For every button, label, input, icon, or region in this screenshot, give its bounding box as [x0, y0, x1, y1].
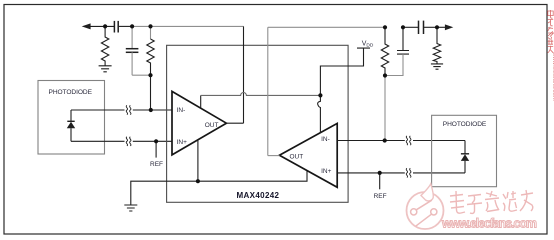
resistor R4 feedback right	[381, 27, 388, 75]
photodiode box right	[432, 115, 497, 186]
break symbol right IN-	[406, 136, 411, 145]
wire: C4 to R3 node	[424, 26, 437, 28]
watermark logo bottom right	[407, 184, 538, 231]
svg-text:PHOTODIODE: PHOTODIODE	[49, 89, 93, 96]
MAX40242 box	[167, 45, 349, 202]
wire: IN+ B out to REF node	[337, 172, 405, 174]
wire: C1 to node A	[119, 25, 132, 27]
wire: IN- B out to node (y=140.5)	[337, 140, 405, 142]
wire: riser OUT A up to top line	[243, 26, 245, 123]
wire: D1 bottom to break	[71, 140, 125, 142]
wire: OUT A to riser	[226, 122, 243, 124]
wire: C2 bottom to node C	[132, 74, 150, 76]
logo circle	[407, 192, 444, 229]
break symbol left IN-	[126, 105, 131, 114]
resistor R1 to ground	[101, 26, 108, 65]
svg-text:MAX40242: MAX40242	[237, 191, 280, 200]
op-amp U1A	[172, 91, 226, 154]
VDD symbol	[320, 48, 370, 95]
wire: node B to corner, feedback top line (gray)	[151, 25, 244, 27]
arrow right output	[445, 24, 453, 30]
photodiode D2	[461, 153, 469, 155]
wire: break to photodiode right top	[413, 140, 465, 142]
capacitor C4 series right	[418, 21, 420, 34]
svg-text:REF: REF	[150, 161, 163, 168]
svg-text:DD: DD	[366, 42, 373, 48]
watermark chinese characters	[450, 190, 533, 213]
svg-text:PHOTODIODE: PHOTODIODE	[443, 121, 487, 128]
wire: D1 top to break	[71, 109, 125, 111]
svg-text:IN+: IN+	[177, 139, 188, 146]
op-amp U1B	[279, 123, 337, 187]
svg-text:IN+: IN+	[321, 168, 332, 175]
capacitor C1 series output	[113, 21, 115, 33]
svg-text:IN-: IN-	[321, 136, 330, 143]
VDD pin drop U1A	[200, 95, 202, 108]
logo arm lines	[416, 200, 432, 226]
resistor R3 to ground right	[433, 27, 440, 63]
wire: break to amp IN+	[133, 140, 172, 142]
arrow left output	[82, 23, 91, 29]
svg-text:OUT: OUT	[205, 122, 219, 129]
logo ring 1	[411, 209, 417, 215]
resistor R2 feedback	[150, 26, 152, 39]
wire: R3 node to arrow	[437, 26, 446, 28]
break symbol left IN+	[126, 137, 131, 146]
capacitor C2 feedback (lead gray)	[131, 26, 133, 48]
ground line	[131, 171, 307, 205]
REF stub right	[379, 173, 381, 189]
wire: node A to node B (gray)	[132, 25, 150, 27]
top right line (gray to node)	[268, 26, 385, 28]
watermark right edge vertical	[548, 10, 554, 101]
VDD line horizontal (hops over riser)	[201, 93, 321, 96]
svg-text:IN-: IN-	[177, 107, 186, 114]
svg-text:REF: REF	[374, 193, 387, 200]
riser OUT B up (gray)	[267, 27, 269, 155]
svg-text:www.elecfans.com: www.elecfans.com	[441, 217, 537, 231]
ground G3	[431, 64, 443, 69]
logo ring 2	[431, 209, 437, 215]
V- pin drop U1A to ground line	[197, 140, 199, 181]
feedback rail right (gray)	[384, 76, 386, 141]
wire: OUT B to riser (gray)	[268, 155, 280, 157]
photodiode D1	[70, 110, 72, 121]
REF stub left	[155, 141, 157, 157]
logo flame	[421, 184, 433, 201]
photodiode box left	[38, 81, 105, 155]
break symbol right IN+	[406, 168, 411, 177]
wire: node to series cap right	[403, 26, 418, 28]
wire: break to amp IN-	[133, 109, 172, 111]
wire: break to photodiode right bottom	[413, 172, 465, 174]
capacitor C3 feedback right	[397, 27, 409, 54]
svg-text:OUT: OUT	[290, 154, 304, 161]
wire: node C down to IN- node	[150, 75, 152, 110]
small chinese chars column	[548, 10, 554, 53]
ground G1	[99, 66, 112, 72]
ground G2	[124, 205, 137, 211]
wire: left output line arrow to C1	[88, 25, 114, 27]
VDD pin drop U1B with jog	[318, 95, 321, 132]
